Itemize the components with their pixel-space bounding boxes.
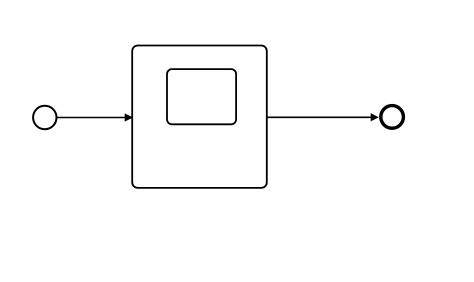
subprocess [132, 46, 267, 188]
sequence flow 2 [267, 114, 378, 121]
task [167, 69, 236, 124]
end event [381, 106, 404, 129]
sequence flow 1 [57, 114, 132, 121]
start event [33, 106, 56, 129]
